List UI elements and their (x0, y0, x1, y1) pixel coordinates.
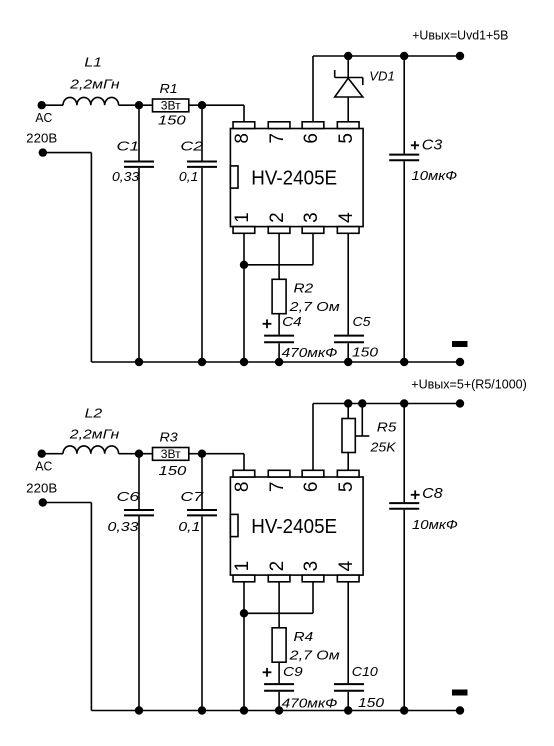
svg-text:25K: 25K (369, 439, 397, 454)
node junction dot bottom rail x=460 (456, 358, 464, 366)
svg-text:3Вт: 3Вт (161, 101, 182, 113)
capacitor C7 (201, 454, 203, 509)
node 220V terminal dot (bottom) (39, 498, 47, 506)
node junction dot R5 wiper (358, 399, 366, 407)
node junction dot bottom rail x=139 (135, 358, 143, 366)
svg-text:C10: C10 (352, 664, 379, 679)
svg-text:0,33: 0,33 (112, 169, 140, 184)
node junction dot bottom rail2 x=202 (198, 706, 206, 714)
capacitor C10 plates (334, 683, 364, 685)
node +Uvyh terminal dot (456, 52, 464, 60)
resistor R3 box (153, 448, 189, 461)
capacitor C3 polarity plus (411, 144, 419, 146)
IC U2 pin 4 pad (337, 575, 359, 582)
wire pin 3 down (bottom) (312, 582, 314, 614)
svg-text:150: 150 (158, 113, 187, 128)
wire pin 1 to bottom rail (bottom) (243, 582, 245, 711)
IC U2 pin 1 pad (233, 575, 255, 582)
node junction dot bottom rail x=404.2 (400, 358, 408, 366)
svg-text:6: 6 (301, 482, 322, 493)
wire R5 to pin 5 (347, 453, 349, 471)
wire R5 wiper tap (355, 435, 369, 437)
svg-text:C4: C4 (282, 314, 302, 329)
IC U2 pin 7 pad (268, 470, 290, 477)
IC U1 pin 1 pad (233, 227, 255, 234)
svg-text:3: 3 (301, 561, 322, 572)
node junction dot C7 (198, 450, 206, 458)
capacitor C4 plates (264, 335, 294, 337)
svg-text:7: 7 (267, 133, 288, 144)
wire R1 to pin 8 (189, 104, 244, 106)
resistor R2 box (272, 279, 286, 313)
node junction dot C3/top rail (400, 52, 408, 60)
IC U1 pin 7 pad (268, 122, 290, 129)
wire bottom rail (bottom circuit) (91, 710, 460, 712)
resistor R4 box (272, 628, 286, 662)
wire VD1 anode to pin 5 (347, 97, 349, 122)
svg-text:10мкФ: 10мкФ (411, 168, 457, 183)
wire top output rail (top circuit) (313, 55, 460, 57)
node junction dot bottom rail2 x=460 (456, 706, 464, 714)
node junction dot pin1/pin3 (240, 261, 248, 269)
svg-text:2,7 Ом: 2,7 Ом (288, 648, 339, 663)
svg-text:+Uвых=Uvd1+5В: +Uвых=Uvd1+5В (412, 28, 508, 42)
svg-text:2: 2 (267, 561, 288, 572)
svg-text:1: 1 (232, 561, 253, 572)
svg-text:VD1: VD1 (369, 69, 395, 84)
capacitor C5 plates (334, 335, 364, 337)
svg-text:C8: C8 (422, 485, 443, 502)
IC U1 pin 4 pad (337, 227, 359, 234)
svg-text:AC: AC (35, 111, 52, 125)
svg-text:+Uвых=5+(R5/1000): +Uвых=5+(R5/1000) (411, 378, 527, 392)
svg-text:4: 4 (336, 560, 357, 571)
svg-text:R5: R5 (377, 420, 397, 435)
svg-text:C7: C7 (180, 489, 204, 504)
wire R4 to C9 (278, 662, 280, 683)
IC U1 pin 2 pad (268, 227, 290, 234)
diode VD1 triangle (335, 78, 363, 97)
wire pin1 node to pin 3 (bottom) (244, 612, 313, 614)
IC U1 pin 5 pad (337, 122, 359, 129)
diode VD1 zener cathode bar (335, 77, 363, 79)
IC U2 pin 5 pad (337, 470, 359, 477)
node junction dot C6 (135, 450, 143, 458)
svg-text:6: 6 (301, 133, 322, 144)
svg-text:C1: C1 (117, 138, 140, 153)
svg-text:1: 1 (232, 212, 253, 223)
capacitor C6 (138, 454, 140, 509)
svg-text:R2: R2 (294, 280, 314, 295)
wire pin1 node to pin 3 (244, 264, 313, 266)
svg-text:0,1: 0,1 (179, 169, 199, 184)
IC U2 pin 2 pad (268, 575, 290, 582)
svg-text:7: 7 (267, 482, 288, 493)
svg-text:R4: R4 (294, 629, 314, 644)
IC U2 pin 8 pad (233, 470, 255, 477)
capacitor C9 plates (264, 683, 294, 685)
svg-text:220В: 220В (26, 131, 57, 145)
svg-text:2,7 Ом: 2,7 Ом (288, 299, 339, 314)
svg-text:L2: L2 (85, 405, 104, 420)
wire top output rail (bottom circuit) (313, 403, 460, 405)
svg-text:HV-2405E: HV-2405E (251, 516, 337, 538)
wire L2 to R3 (119, 453, 153, 455)
wire 220V terminal to bottom rail (43, 152, 92, 154)
svg-text:R1: R1 (160, 81, 178, 96)
svg-text:2: 2 (267, 212, 288, 223)
node junction dot bottom rail x=348.2 (344, 358, 352, 366)
svg-text:R3: R3 (160, 430, 179, 445)
node 220V terminal dot (39, 148, 47, 156)
capacitor C8 (403, 404, 405, 503)
node junction dot pin1/pin3 (bottom) (240, 609, 248, 617)
node junction dot bottom rail2 x=279.1 (275, 706, 283, 714)
inductor L2 (63, 446, 119, 454)
wire R3 to pin 8 (bottom) (189, 453, 244, 455)
node junction dot bottom rail2 x=348.2 (344, 706, 352, 714)
node junction dot C2 (198, 101, 206, 109)
svg-text:5: 5 (336, 482, 357, 493)
wire pin 4 to C5 (347, 233, 349, 334)
wire pin 1 to bottom rail (243, 233, 245, 362)
wire pin 2 to R2 (278, 233, 280, 279)
svg-text:2,2мГн: 2,2мГн (69, 426, 120, 441)
IC U1 pin 6 pad (302, 122, 324, 129)
wire R2 to C4 (278, 314, 280, 335)
inductor L1 (63, 97, 119, 105)
IC U2 HV-2405E body (230, 477, 363, 575)
wire 220V terminal to bottom rail (bottom) (43, 502, 92, 504)
IC U2 pin 3 pad (302, 575, 324, 582)
svg-text:3Вт: 3Вт (161, 449, 182, 461)
wire AC terminal to L2 (42, 453, 63, 455)
minus output terminal bar (top circuit) (452, 341, 468, 347)
node junction dot bottom rail x=202 (198, 358, 206, 366)
node junction dot C8/top rail (400, 399, 408, 407)
svg-text:HV-2405E: HV-2405E (251, 167, 337, 189)
svg-text:2,2мГн: 2,2мГн (69, 76, 120, 91)
svg-text:150: 150 (352, 345, 379, 360)
wire top rail to VD1 cathode (347, 56, 349, 78)
svg-text:470мкФ: 470мкФ (282, 696, 338, 711)
svg-text:150: 150 (159, 463, 188, 478)
svg-text:3: 3 (301, 212, 322, 223)
IC U1 pin 3 pad (302, 227, 324, 234)
capacitor C1 (138, 105, 140, 160)
resistor R5 potentiometer box (342, 419, 355, 453)
node junction dot bottom rail2 x=139 (135, 706, 143, 714)
capacitor C2 (201, 105, 203, 160)
wire AC terminal to L1 (42, 104, 63, 106)
svg-text:C3: C3 (422, 136, 443, 153)
svg-text:5: 5 (336, 133, 357, 144)
capacitor C8 polarity plus (411, 494, 420, 496)
svg-text:8: 8 (232, 133, 253, 144)
wire bottom rail (top circuit) (91, 361, 460, 363)
node junction dot R5 top (344, 399, 352, 407)
svg-text:10мкФ: 10мкФ (412, 517, 458, 532)
svg-text:L1: L1 (84, 54, 102, 69)
wire pin 2 to R4 (278, 582, 280, 628)
capacitor C4 polarity plus (263, 323, 272, 325)
svg-text:4: 4 (336, 212, 357, 223)
node AC input terminal dot (bottom) (38, 450, 46, 458)
minus output terminal bar (bottom circuit) (452, 690, 468, 696)
node junction dot bottom rail x=244 (240, 358, 248, 366)
svg-text:C2: C2 (180, 138, 204, 153)
IC U1 pin 8 pad (233, 122, 255, 129)
wire pin6 to top rail (312, 56, 314, 122)
node junction dot VD1/top rail (344, 52, 352, 60)
capacitor C9 polarity plus (263, 671, 272, 673)
IC U1 HV-2405E body (230, 129, 363, 227)
wire pin6 to top rail (bottom) (312, 404, 314, 471)
svg-text:C5: C5 (353, 314, 372, 329)
wire rail to R5 (347, 404, 349, 419)
node junction dot bottom rail2 x=244 (240, 706, 248, 714)
wire L1 to R1 (119, 104, 153, 106)
IC U2 pin-1 notch (230, 514, 238, 536)
resistor R1 box (153, 99, 189, 112)
svg-text:0,1: 0,1 (178, 519, 200, 534)
capacitor C3 (403, 56, 405, 154)
svg-text:470мкФ: 470мкФ (282, 345, 338, 360)
node +Uvyh terminal dot (bottom) (456, 399, 464, 407)
node AC input terminal dot (38, 101, 46, 109)
node junction dot C1 (135, 101, 143, 109)
svg-text:150: 150 (358, 695, 385, 710)
node junction dot bottom rail x=279.1 (275, 358, 283, 366)
svg-text:0,33: 0,33 (108, 519, 140, 534)
IC U1 pin-1 notch (230, 166, 238, 188)
svg-text:220В: 220В (26, 482, 57, 496)
wire pin 4 to C10 (347, 582, 349, 683)
svg-text:8: 8 (232, 482, 253, 493)
node junction dot bottom rail2 x=404.2 (400, 706, 408, 714)
svg-text:AC: AC (35, 459, 52, 473)
svg-text:C9: C9 (283, 664, 303, 679)
svg-text:C6: C6 (117, 489, 141, 504)
IC U2 pin 6 pad (302, 470, 324, 477)
wire pin 3 down (312, 233, 314, 264)
